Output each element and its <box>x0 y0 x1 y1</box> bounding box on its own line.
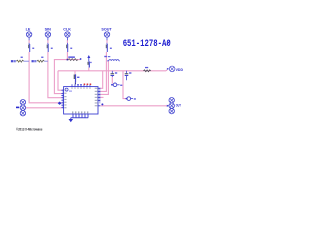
ground below U1 <box>69 118 74 123</box>
wire rail drop to pin <box>100 71 102 89</box>
wire cap1 lower stem <box>111 77 113 84</box>
U1 top pins <box>72 84 91 89</box>
wire RF OUT line <box>101 105 168 107</box>
svg-text:CLK: CLK <box>63 27 71 31</box>
resistor R1 <box>28 44 34 52</box>
U1 left pins <box>61 89 66 108</box>
copyright note <box>16 128 43 132</box>
connector J6 OUT GSG <box>167 98 181 114</box>
resistor R5 pullup row A <box>11 57 29 63</box>
svg-text:651-1278-A0: 651-1278-A0 <box>123 38 171 49</box>
connector J5 REF input GSG <box>16 100 26 116</box>
inductor L1 <box>104 56 120 61</box>
svg-text:SIN: SIN <box>45 27 51 31</box>
ferrite bead FB1 on CLK row <box>67 56 82 60</box>
wire CLK net vertical <box>66 40 68 60</box>
ferrite bead FB2 <box>111 83 122 87</box>
capacitor C2 <box>125 71 132 81</box>
ferrite bead FB4 on VDD rail <box>144 67 151 72</box>
resistor R2 <box>47 44 53 52</box>
wire SIN net vertical <box>48 40 62 98</box>
capacitor C1 <box>111 71 118 77</box>
connector J1 LE <box>26 27 32 44</box>
svg-text:VDD: VDD <box>176 68 184 72</box>
power symbol VDD <box>167 66 183 72</box>
wire SOUT net vertical <box>100 40 107 91</box>
resistor R3 <box>66 44 72 52</box>
wire bead2 branch <box>123 71 126 99</box>
wire rail to left pin <box>58 71 62 90</box>
wire inductor drop to pin <box>100 61 108 95</box>
VCC arrow with resistor R7 <box>87 55 91 71</box>
connector J3 CLK <box>63 27 71 44</box>
title 651-1278-A0 <box>123 38 171 49</box>
resistor R6 pullup row B <box>32 57 48 63</box>
U1 right pins <box>95 88 104 107</box>
wire CLK row to IC <box>54 60 80 94</box>
wire VDD rail <box>58 69 167 72</box>
wire pin stub <box>100 96 103 98</box>
net port diamond on LE line <box>58 102 62 105</box>
U1 bottom pins <box>71 111 88 117</box>
connector J2 SIN <box>45 27 51 44</box>
wire LE net vertical <box>29 40 61 103</box>
ferrite bead FB3 <box>126 97 136 101</box>
wire REF input <box>26 107 62 109</box>
resistor R8 above IC <box>74 71 80 85</box>
svg-text:LE: LE <box>26 27 31 31</box>
connector J4 SOUT <box>101 27 112 44</box>
resistor R4 <box>106 44 112 52</box>
svg-text:SOUT: SOUT <box>101 27 112 31</box>
svg-text:©2013 X-Microwave: ©2013 X-Microwave <box>16 128 43 132</box>
U1 top pin number labels <box>77 84 91 86</box>
IC U1 body <box>64 87 98 114</box>
svg-text:OUT: OUT <box>176 103 181 107</box>
